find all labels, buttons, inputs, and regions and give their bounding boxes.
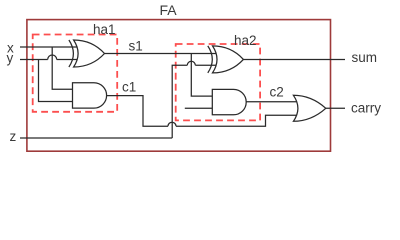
svg-text:ha2: ha2 [234,33,257,48]
and gate AND1 [73,83,107,108]
wire sum output [243,59,345,61]
and gate AND2 [212,89,246,114]
half-adder box ha2 [176,44,260,120]
wire carry output [326,107,345,109]
wire c2 from AND2 to OR [246,101,297,103]
wire y input continued to XOR1 [57,59,77,61]
wire x input [20,46,77,48]
svg-text:FA: FA [160,2,178,18]
svg-text:y: y [7,51,14,66]
svg-text:c1: c1 [122,80,136,95]
wire z continued to XOR2 [195,64,216,66]
wire hop on y over x branch [48,55,57,60]
wire y branch down to AND1 [39,60,73,102]
wire c1 from AND1 [107,96,168,127]
half-adder box ha1 [33,35,118,112]
wire y input (with hop gap) [20,59,48,61]
svg-text:z: z [10,129,17,144]
wire z stub to AND2 lower input [185,107,213,109]
wire c1 continued to OR [176,115,298,126]
wire x branch down to AND1 [52,47,72,89]
svg-text:c2: c2 [270,85,284,100]
xor gate XOR2 [208,46,244,73]
wire hop on c1 over z riser [168,122,176,126]
xor gate XOR1 [69,40,105,67]
FA module box [27,20,331,152]
svg-text:sum: sum [352,50,378,65]
wire z input [20,137,172,139]
svg-text:carry: carry [351,101,381,116]
wire hop on z over s1 branch [187,61,195,65]
svg-text:ha1: ha1 [93,22,116,37]
wire s1 from XOR1 to XOR2 [105,53,217,55]
svg-text:s1: s1 [129,39,143,54]
wire z riser to ha2 [172,65,187,138]
wire s1 branch down to AND2 [191,54,212,97]
or gate OR1 [293,95,325,121]
